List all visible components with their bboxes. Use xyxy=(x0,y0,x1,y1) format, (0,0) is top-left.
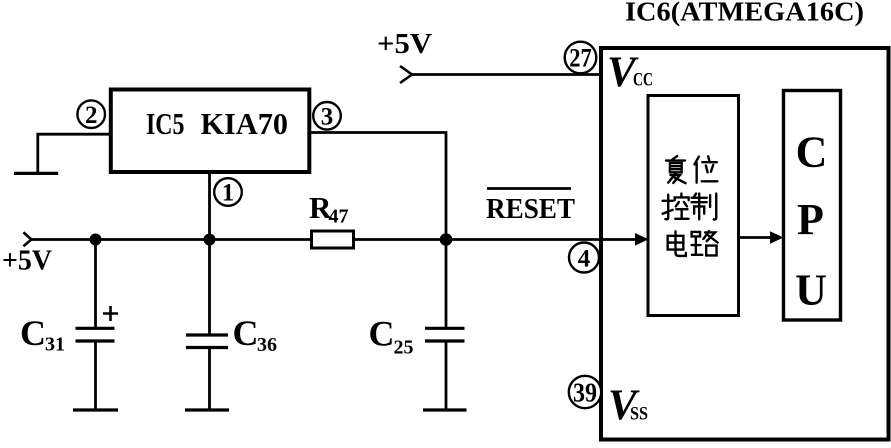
svg-text:2: 2 xyxy=(85,102,98,129)
svg-text:31: 31 xyxy=(45,334,65,356)
svg-text:P: P xyxy=(797,195,824,244)
node C junction dot xyxy=(440,233,453,246)
svg-text:C: C xyxy=(796,128,828,177)
svg-text:3: 3 xyxy=(321,104,334,131)
capacitor C25 bottom leg xyxy=(445,341,448,410)
capacitor C31 plates xyxy=(76,327,115,330)
capacitor C36 ground bar xyxy=(185,408,229,411)
svg-text:IC6(ATMEGA16C): IC6(ATMEGA16C) xyxy=(625,0,864,27)
ground xyxy=(14,172,58,175)
pin 39 bubble xyxy=(569,376,601,408)
wire pin1 of IC5 down to rail xyxy=(208,172,211,239)
svg-text:C: C xyxy=(369,314,395,354)
capacitor C31 top leg xyxy=(94,240,97,330)
svg-text:36: 36 xyxy=(257,334,277,356)
wire +5V to pin 27 xyxy=(411,73,601,76)
svg-text:+5V: +5V xyxy=(2,246,52,277)
svg-text:27: 27 xyxy=(569,44,592,73)
capacitor C25 top leg xyxy=(445,240,448,330)
capacitor C36 bottom leg xyxy=(208,348,211,411)
arrowhead into CPU xyxy=(770,231,784,244)
pin 2 bubble xyxy=(77,100,105,128)
main +5V rail wire to reset arrow xyxy=(31,238,636,241)
svg-text:+5V: +5V xyxy=(377,29,432,60)
arrowhead into reset-control box xyxy=(635,233,649,246)
svg-text:IC5: IC5 xyxy=(146,106,185,141)
svg-text:1: 1 xyxy=(222,180,235,207)
IC5 KIA70 box xyxy=(111,90,309,173)
pin 3 bubble xyxy=(313,102,341,130)
svg-text:SS: SS xyxy=(630,404,648,425)
CPU sub-block box xyxy=(784,91,841,321)
svg-text:25: 25 xyxy=(394,337,414,359)
svg-text:KIA70: KIA70 xyxy=(201,106,289,141)
source chevron top xyxy=(400,66,412,83)
pin 1 bubble xyxy=(214,178,242,206)
node B junction dot xyxy=(204,234,216,246)
IC6 U-chip box xyxy=(601,48,889,440)
svg-text:C: C xyxy=(20,313,46,353)
svg-text:47: 47 xyxy=(329,206,349,228)
wire reset-control to CPU with arrowhead xyxy=(739,236,773,239)
svg-text:4: 4 xyxy=(578,246,591,273)
capacitor C31 ground bar xyxy=(73,408,118,411)
capacitor C36 top leg xyxy=(208,240,211,336)
wire pin2 of IC5 to ground xyxy=(38,134,111,172)
svg-text:C: C xyxy=(233,313,259,353)
pin 4 bubble xyxy=(569,243,599,273)
C31 polarity plus xyxy=(103,306,118,321)
svg-text:RESET: RESET xyxy=(486,193,575,225)
source chevron bottom left xyxy=(23,232,31,246)
capacitor C25 ground bar xyxy=(423,408,467,411)
capacitor C36 plates xyxy=(186,333,228,336)
capacitor C31 bottom leg xyxy=(94,341,97,410)
wire pin3 of IC5 down to node C xyxy=(309,133,446,240)
capacitor C25 plates xyxy=(425,327,465,330)
svg-text:CC: CC xyxy=(633,70,653,91)
resistor R47 body xyxy=(312,231,354,248)
pin 27 bubble xyxy=(565,42,597,74)
svg-text:39: 39 xyxy=(573,378,597,408)
svg-text:U: U xyxy=(795,266,827,315)
reset-control sub-block box xyxy=(648,96,739,316)
node A junction dot xyxy=(90,234,102,246)
reset-control label (hand-drawn CJK strokes) xyxy=(663,156,718,256)
